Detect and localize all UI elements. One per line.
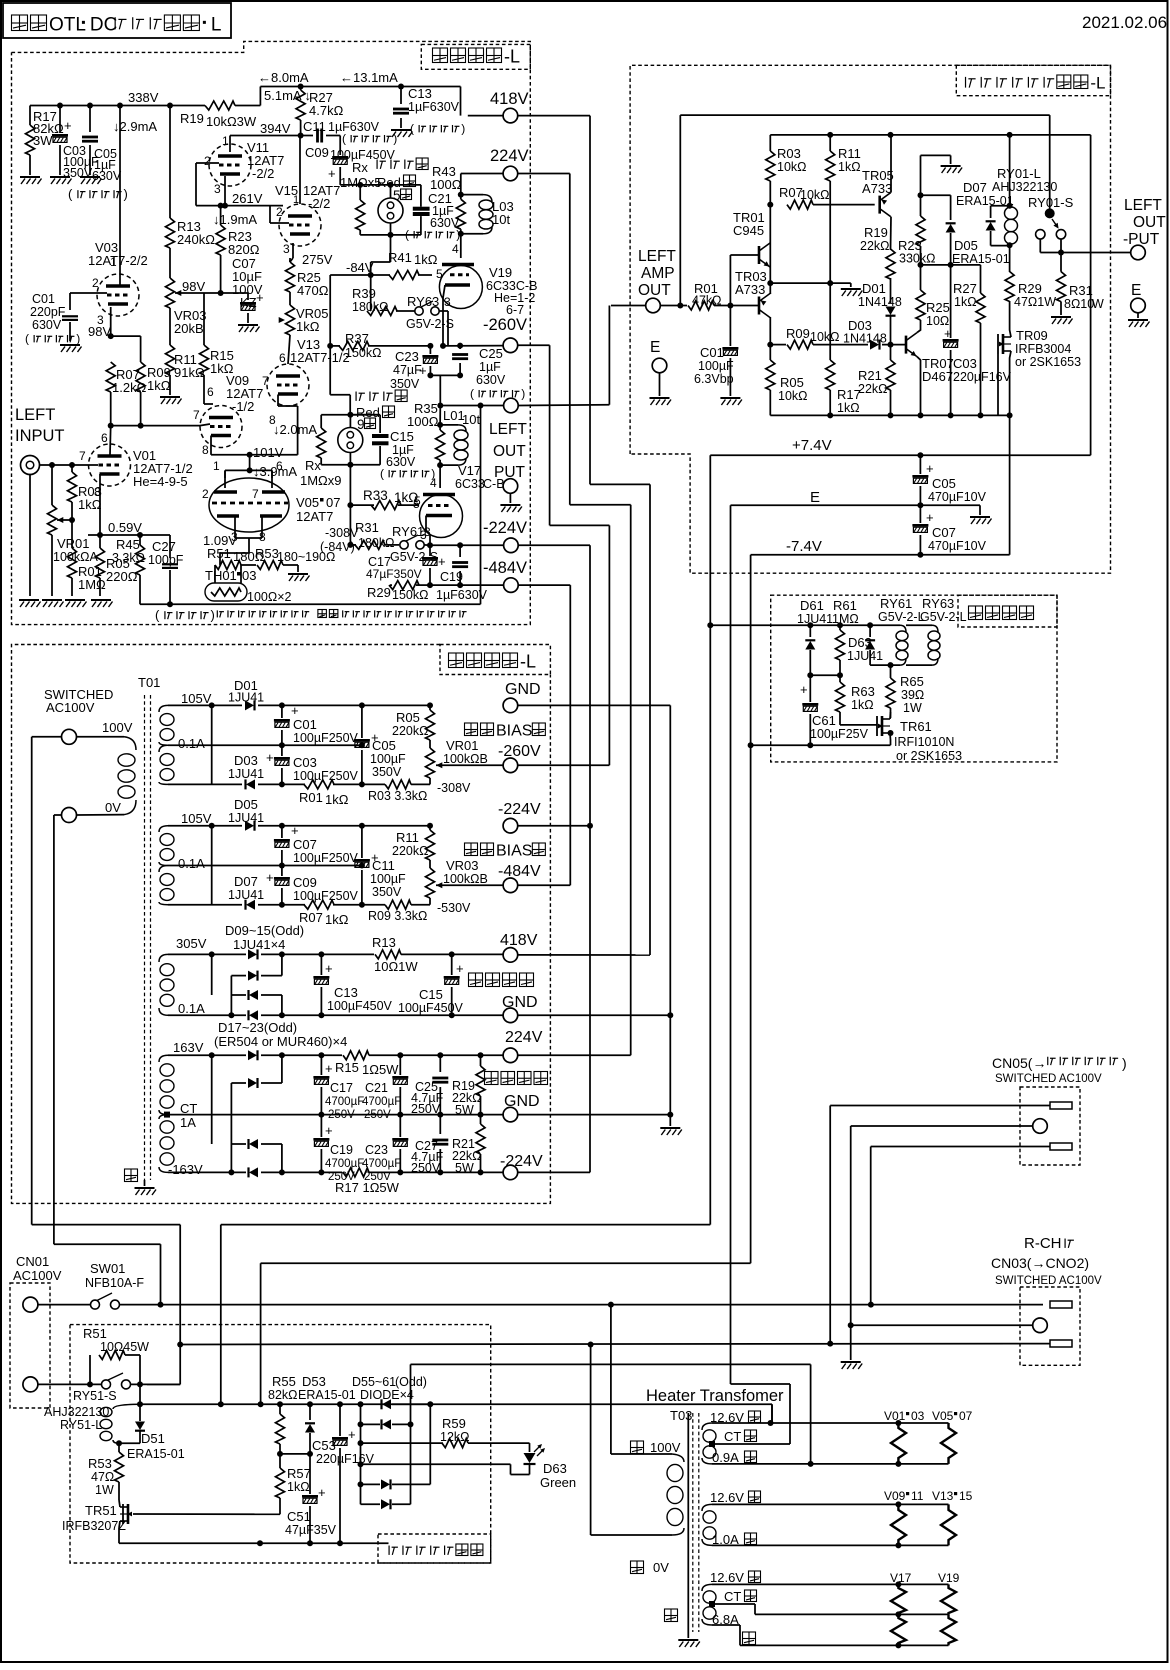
resistor Rx 1Mx9 [320, 415, 322, 428]
resistor R11p 1k [829, 135, 831, 151]
svg-text:A733: A733 [735, 282, 765, 297]
resistor R11b 220k [429, 826, 431, 830]
resistor R13 240k [169, 106, 171, 219]
svg-text:C03: C03 [953, 356, 977, 371]
svg-text:3.3kΩ: 3.3kΩ [112, 551, 145, 565]
capacitor C15b 100uF450V [451, 954, 453, 975]
svg-text:C03: C03 [293, 755, 317, 770]
svg-text:G5V-2-L: G5V-2-L [878, 610, 925, 624]
led D63 Green [529, 1443, 531, 1452]
capacitor C09b 100uF250V [281, 866, 283, 877]
svg-text:-260V: -260V [498, 743, 541, 760]
bus jog 224V [569, 174, 571, 505]
resistor R11 91k [166, 345, 175, 375]
connector CN05 pin2 round [1033, 1119, 1048, 1134]
svg-text:3W: 3W [33, 133, 53, 148]
wire CT black [715, 1603, 755, 1605]
capacitor C01 220pF [62, 315, 78, 317]
wire top rail2 [770, 134, 1090, 136]
wire V15 grid [270, 222, 289, 224]
resistor R29 47ohm1W [1005, 272, 1014, 302]
wire signal board bottom rail [751, 744, 891, 746]
transformer T03 core [692, 1413, 694, 1632]
svg-text:8: 8 [202, 443, 209, 457]
ground C03 [50, 177, 72, 184]
wire 8mA rail [260, 86, 460, 88]
wire bus -7.4V bottom jog [261, 1262, 751, 1264]
svg-text:CN05(→: CN05(→ [992, 1055, 1046, 1071]
wire 261V rail [196, 205, 283, 207]
wire relay bottoms rail [870, 664, 900, 666]
svg-text:5: 5 [413, 497, 420, 511]
resistor R23 820 [220, 206, 222, 225]
svg-text:1W: 1W [95, 1483, 114, 1497]
capacitor C11 1uF630V [316, 129, 319, 143]
svg-text:V09: V09 [884, 1489, 906, 1503]
svg-text:GND: GND [504, 1093, 540, 1110]
wire neon5 top rail [340, 184, 421, 186]
wire block4 CT rail [168, 1114, 503, 1116]
diode D21 row3 [231, 1143, 246, 1145]
ground T01 core [125, 1169, 138, 1182]
svg-text:250V: 250V [328, 1171, 355, 1183]
label box 信号基板 [958, 595, 1057, 627]
relay coil RY01-L [1009, 135, 1011, 206]
wire heater sense bottom [410, 1364, 412, 1424]
signal board dashed box [771, 595, 1057, 762]
wire V19 cathode to -260V rail [443, 285, 445, 298]
svg-text:C23: C23 [365, 1143, 388, 1157]
resistor R09b 3.3k [385, 900, 411, 909]
svg-text:220kΩ: 220kΩ [392, 844, 428, 858]
bus +7.4V down left [709, 455, 711, 1224]
node C23 top [427, 343, 433, 349]
wire 98V to R09 [111, 335, 141, 337]
svg-text:C13: C13 [334, 985, 358, 1000]
wiper rail to KZ cap [196, 292, 248, 294]
svg-text:250V: 250V [364, 1171, 391, 1183]
wire 224V power to bus [518, 1054, 631, 1056]
svg-text:1: 1 [213, 459, 220, 473]
svg-text:7: 7 [79, 449, 86, 463]
svg-text:C61: C61 [812, 713, 836, 728]
transformer T03 primary [631, 1441, 644, 1454]
svg-text:E: E [1131, 282, 1141, 299]
diode D03 1JU41 [246, 779, 255, 789]
wire block2 top rail 105V [168, 825, 242, 827]
svg-text:4.7kΩ: 4.7kΩ [309, 103, 344, 118]
ground C01 [60, 345, 82, 352]
svg-text:3: 3 [424, 525, 431, 539]
wire AC pole2 run [54, 1243, 161, 1245]
ground C01p [720, 398, 742, 405]
svg-text:220kΩ: 220kΩ [392, 724, 428, 738]
svg-text:RY63: RY63 [922, 596, 954, 611]
resistor R15 1k [203, 293, 205, 345]
wire V11 plate [229, 136, 231, 153]
terminal -484V [504, 578, 519, 593]
capacitor C21b 4700uF [399, 1055, 401, 1075]
diode D01p 1N4148 [886, 307, 896, 316]
node R23 bottom on wiper rail [218, 290, 224, 296]
bus -484V [569, 585, 571, 885]
svg-text:2: 2 [92, 276, 99, 290]
tube V15 12AT7-2/2 [279, 204, 321, 246]
capacitor C03b 100uF250V [281, 745, 283, 756]
wire protector board top rail [140, 1403, 430, 1405]
resistor R21p 22k [890, 345, 892, 360]
resistor R03 3.3k [385, 780, 411, 789]
wire AC line2 long [180, 1343, 1050, 1346]
svg-text:AC100V: AC100V [46, 700, 95, 715]
mosfet TR61 IRFI1010N [840, 724, 877, 726]
svg-text:OUT: OUT [1133, 214, 1166, 231]
svg-text:D51: D51 [141, 1431, 165, 1446]
wire V13 cathode 2.0mA [277, 395, 279, 407]
svg-text:100µF: 100µF [370, 752, 406, 766]
svg-text:100µF250V: 100µF250V [293, 851, 359, 865]
wire -84V rail [330, 274, 390, 276]
svg-text:1kΩ: 1kΩ [954, 295, 977, 309]
svg-text:V17: V17 [890, 1571, 912, 1585]
svg-text:4700µF: 4700µF [325, 1096, 364, 1108]
bus -7.4V down [750, 555, 752, 1264]
svg-text:07: 07 [959, 1409, 973, 1423]
wire sec1 top [712, 1422, 949, 1424]
wire -224V to bus [518, 1171, 590, 1173]
svg-text:2: 2 [276, 205, 283, 219]
svg-text:470µF10V: 470µF10V [928, 539, 987, 553]
diode D01 1JU41 [245, 700, 254, 710]
svg-text:338V: 338V [128, 90, 159, 105]
svg-text:C21: C21 [365, 1081, 388, 1095]
resistor R05b 220k [429, 705, 431, 710]
svg-text:RY61: RY61 [880, 596, 912, 611]
wire AC pole1 to RY51S [179, 1225, 181, 1385]
svg-text:+: + [291, 823, 299, 838]
wire V09 grid [200, 424, 210, 426]
svg-text:100Ω: 100Ω [407, 414, 439, 429]
heater V13-15 [941, 1504, 956, 1545]
svg-text:100kΩB: 100kΩB [443, 872, 488, 886]
svg-text:R41: R41 [388, 250, 412, 265]
tube V13 12AT7-1/2 [267, 364, 309, 406]
svg-text:D09~15(Odd): D09~15(Odd) [225, 923, 304, 938]
svg-text:C01: C01 [700, 345, 724, 360]
svg-text:R51: R51 [207, 546, 231, 561]
svg-text:): ) [76, 332, 80, 346]
svg-text:C25: C25 [479, 346, 503, 361]
neon lamp 9-series [349, 415, 351, 428]
svg-text:RY63: RY63 [407, 294, 439, 309]
diode D61b [360, 1484, 362, 1504]
svg-text:NFB10A-F: NFB10A-F [85, 1276, 144, 1290]
wire V11 grid to 261V rail [196, 162, 219, 164]
terminal LEFT AMP OUT [646, 298, 661, 313]
terminal 418V power [503, 948, 518, 963]
connector CN01 box [10, 1283, 50, 1408]
svg-text:R31: R31 [1069, 283, 1093, 298]
resistor R05 220 [99, 535, 101, 548]
resistor R23p 330k [920, 155, 922, 216]
svg-text:KZ: KZ [240, 295, 257, 310]
input jack [21, 456, 40, 475]
svg-text:47µF: 47µF [393, 363, 422, 377]
svg-text:220pF: 220pF [30, 305, 66, 319]
svg-text:1: 1 [293, 194, 299, 206]
svg-text:D05: D05 [954, 238, 978, 253]
svg-text:R03 3.3kΩ: R03 3.3kΩ [368, 789, 427, 803]
svg-text:C17: C17 [330, 1081, 353, 1095]
svg-text:TR61: TR61 [900, 719, 932, 734]
bus jog -260V [549, 345, 551, 525]
wire left output rail [440, 405, 503, 407]
resistor R17b 1ohm5W [343, 1168, 369, 1177]
wire heater sense rail to transformer [430, 1403, 772, 1405]
svg-text:101V: 101V [253, 445, 284, 460]
wire block3 top rail [168, 953, 246, 955]
wire base rail R09 D03 [770, 344, 786, 346]
T01 winding 305V [160, 964, 174, 976]
wire 418V to bus [518, 115, 590, 117]
diode D59 [360, 1424, 362, 1484]
capacitor C03 100uF350V [59, 106, 61, 134]
svg-text:5W: 5W [455, 1103, 474, 1117]
svg-text:←8.0mA: ←8.0mA [258, 70, 309, 85]
ground R17 [20, 177, 42, 184]
svg-text:1µF630V: 1µF630V [328, 120, 380, 134]
T01 winding 163V lower [160, 1121, 174, 1133]
svg-text:1µF630V: 1µF630V [408, 100, 460, 114]
wire V13 plate [287, 363, 289, 365]
svg-text:47µF350V: 47µF350V [366, 567, 422, 581]
svg-text:PUT: PUT [494, 464, 526, 481]
svg-text:VR01: VR01 [446, 738, 479, 753]
svg-text:180~190Ω: 180~190Ω [277, 550, 335, 564]
wire CN05 pin3 feed [871, 1146, 1050, 1148]
svg-text:R21: R21 [858, 368, 882, 383]
svg-text:250V: 250V [364, 1109, 391, 1121]
svg-text:1MΩ: 1MΩ [832, 612, 859, 626]
resistor R03p 10k [769, 135, 771, 151]
svg-text:12.6V: 12.6V [710, 1490, 744, 1505]
svg-text:6C33: 6C33 [455, 477, 485, 491]
svg-text:C19: C19 [440, 570, 463, 584]
T01 CT tap [159, 1110, 168, 1115]
svg-text:7: 7 [262, 374, 269, 388]
capacitor C01 100uF250V [281, 705, 283, 718]
node neon5 bottom [388, 232, 394, 238]
wire -484V rail [430, 584, 503, 586]
svg-text:-7.4V: -7.4V [786, 538, 822, 555]
tube V01 12AT7-1/2 [89, 444, 131, 486]
capacitor C01p 100uF 6.3Vbp [729, 306, 731, 347]
inductor L03 10t [461, 194, 483, 196]
terminal CN01-1 [23, 1297, 38, 1312]
wire GND amp to bus [518, 1014, 671, 1016]
svg-text:-163V: -163V [168, 1162, 203, 1177]
wire block4 top rail [168, 1054, 246, 1056]
svg-text:DC: DC [90, 15, 117, 36]
svg-text:1JU41×4: 1JU41×4 [233, 937, 285, 952]
svg-text:1kΩ: 1kΩ [325, 792, 349, 807]
wire 3.9mA to V05-07 [249, 455, 251, 471]
svg-text:R39: R39 [352, 286, 376, 301]
svg-text:R59: R59 [442, 1416, 466, 1431]
svg-text:39Ω: 39Ω [901, 688, 924, 702]
node 261V [218, 203, 224, 209]
svg-text:C05: C05 [372, 738, 396, 753]
svg-text:630V: 630V [476, 373, 506, 387]
svg-text:47Ω1W: 47Ω1W [1014, 295, 1056, 309]
svg-text:820Ω: 820Ω [228, 242, 260, 257]
svg-text:He=4-9-5: He=4-9-5 [133, 474, 188, 489]
svg-text:R53: R53 [88, 1456, 112, 1471]
svg-text:15: 15 [959, 1489, 973, 1503]
svg-text:5W: 5W [455, 1161, 474, 1175]
resistor R09 1k [136, 362, 145, 392]
svg-text:630V: 630V [386, 455, 416, 469]
svg-text:C13: C13 [408, 86, 432, 101]
svg-text:D03: D03 [234, 753, 258, 768]
svg-text:275V: 275V [302, 252, 333, 267]
label 上段BIAS用 [465, 723, 478, 736]
tube V11 12AT7-2/2 [209, 144, 251, 186]
svg-text:R09: R09 [786, 326, 810, 341]
svg-text:R29: R29 [367, 585, 391, 600]
svg-text:100V: 100V [102, 720, 133, 735]
svg-text:1Ω5W: 1Ω5W [362, 1062, 399, 1077]
svg-text:180kΩ: 180kΩ [358, 536, 394, 550]
svg-text:R01: R01 [299, 790, 323, 805]
wire CT orange to E bus [715, 1443, 790, 1445]
svg-text:100kΩB: 100kΩB [443, 752, 488, 766]
svg-text:C07: C07 [293, 837, 317, 852]
tube V17 6C33C-B [420, 495, 463, 538]
capacitor C09 100uF450V [339, 136, 341, 156]
resistor R01 1k [304, 780, 334, 789]
transistor TR05 A733 [878, 196, 881, 214]
svg-text:12.6V: 12.6V [710, 1570, 744, 1585]
wire CN03 pin2 feed [851, 1324, 1033, 1326]
svg-text:L: L [211, 15, 222, 36]
svg-text:12AT7-1/2: 12AT7-1/2 [290, 350, 350, 365]
wire bottom rail protector [770, 414, 1009, 416]
wire left vertical block2 [211, 826, 213, 905]
svg-text:100V: 100V [650, 1440, 681, 1455]
resistor R17p 1k [829, 283, 831, 360]
diode D05p ERA15-01 [921, 194, 951, 196]
svg-text:47µF35V: 47µF35V [285, 1523, 337, 1537]
inductor L01 10t [440, 424, 458, 426]
resistor R15b 1ohm5W [343, 1051, 369, 1060]
label 増幅段用 [469, 973, 483, 987]
connector CN05 box [1020, 1087, 1080, 1165]
terminal GND power [503, 698, 518, 713]
ground CN05 pin2 [841, 1362, 863, 1369]
svg-text:R11: R11 [838, 146, 861, 161]
svg-text:CT: CT [724, 1429, 741, 1444]
svg-text:A733: A733 [862, 181, 892, 196]
svg-text:0V: 0V [653, 1560, 669, 1575]
wire GND bus [518, 704, 671, 706]
svg-text:AHJ322130: AHJ322130 [992, 180, 1057, 194]
svg-text:): ) [1122, 1055, 1127, 1071]
diode D51 ERA15-01 [135, 1422, 145, 1431]
svg-text:V19: V19 [938, 1571, 960, 1585]
svg-text:1JU41: 1JU41 [797, 612, 833, 626]
svg-text:C15: C15 [390, 429, 414, 444]
svg-text:D55~61: D55~61 [352, 1375, 396, 1389]
resistor R03 1k [69, 462, 75, 468]
svg-text:C27: C27 [152, 539, 176, 554]
potentiometer VR03 20kB [166, 278, 175, 308]
svg-text:0V: 0V [105, 800, 121, 815]
svg-text:0.1A: 0.1A [178, 736, 205, 751]
wire mid ground rail [770, 282, 851, 284]
capacitor C03p 220uF16V [950, 265, 952, 338]
svg-text:47Ω: 47Ω [91, 1470, 114, 1484]
wire CN05 pin2 feed [851, 1125, 1033, 1127]
node -84V [368, 272, 374, 278]
svg-text:1kΩ: 1kΩ [837, 401, 860, 415]
svg-text:D17~23(Odd): D17~23(Odd) [218, 1020, 297, 1035]
svg-text:1kΩ: 1kΩ [287, 1480, 310, 1494]
transistor TR07 D467 [905, 336, 908, 354]
node L01 top [437, 422, 443, 428]
svg-text:): ) [210, 608, 214, 623]
bus -224V [589, 545, 591, 1172]
svg-text:22kΩ: 22kΩ [860, 239, 890, 253]
resistor R39 180k [367, 307, 397, 316]
svg-text:(: ( [342, 132, 346, 146]
wire switched AC line [120, 1304, 1044, 1306]
potentiometer VR01 100kA [48, 505, 57, 535]
svg-text:-530V: -530V [437, 901, 471, 915]
wire -84V to neon9 [329, 275, 331, 395]
svg-text:RY61: RY61 [392, 524, 424, 539]
capacitor C25 1uF630V [459, 346, 461, 349]
wire protector bottom to -7.4V [1009, 415, 1011, 554]
svg-text:Heater Transfomer: Heater Transfomer [646, 1387, 784, 1405]
svg-text:CT: CT [724, 1589, 741, 1604]
capacitor C17b 4700uF [320, 1055, 322, 1075]
wire relay contact to output terminal [1039, 239, 1041, 253]
resistor R25 470 [289, 258, 291, 262]
resistor R33 1k [350, 504, 374, 506]
svg-text:GND: GND [505, 681, 541, 698]
svg-text:D467: D467 [922, 369, 953, 384]
svg-text:100Ω: 100Ω [430, 177, 462, 192]
svg-text:C11: C11 [372, 858, 395, 873]
wire output to protector bus [518, 404, 609, 407]
svg-text:D53: D53 [302, 1374, 326, 1389]
label box 信号回路-L [421, 44, 530, 69]
svg-text:-308V: -308V [437, 781, 471, 795]
svg-text:100µF250V: 100µF250V [293, 889, 359, 903]
svg-text:98V: 98V [182, 279, 205, 294]
node 101V [247, 452, 253, 458]
node V19 cathode [440, 343, 446, 349]
T01 winding 105V a [160, 714, 174, 726]
svg-text:D05: D05 [234, 797, 258, 812]
wire V15 cathode to R25 [292, 243, 294, 258]
svg-text:OUT: OUT [493, 443, 526, 460]
svg-text:+: + [325, 1123, 333, 1138]
svg-text:D07: D07 [234, 874, 258, 889]
svg-text:-484V: -484V [483, 559, 527, 577]
svg-text:RY01-L: RY01-L [997, 166, 1041, 181]
